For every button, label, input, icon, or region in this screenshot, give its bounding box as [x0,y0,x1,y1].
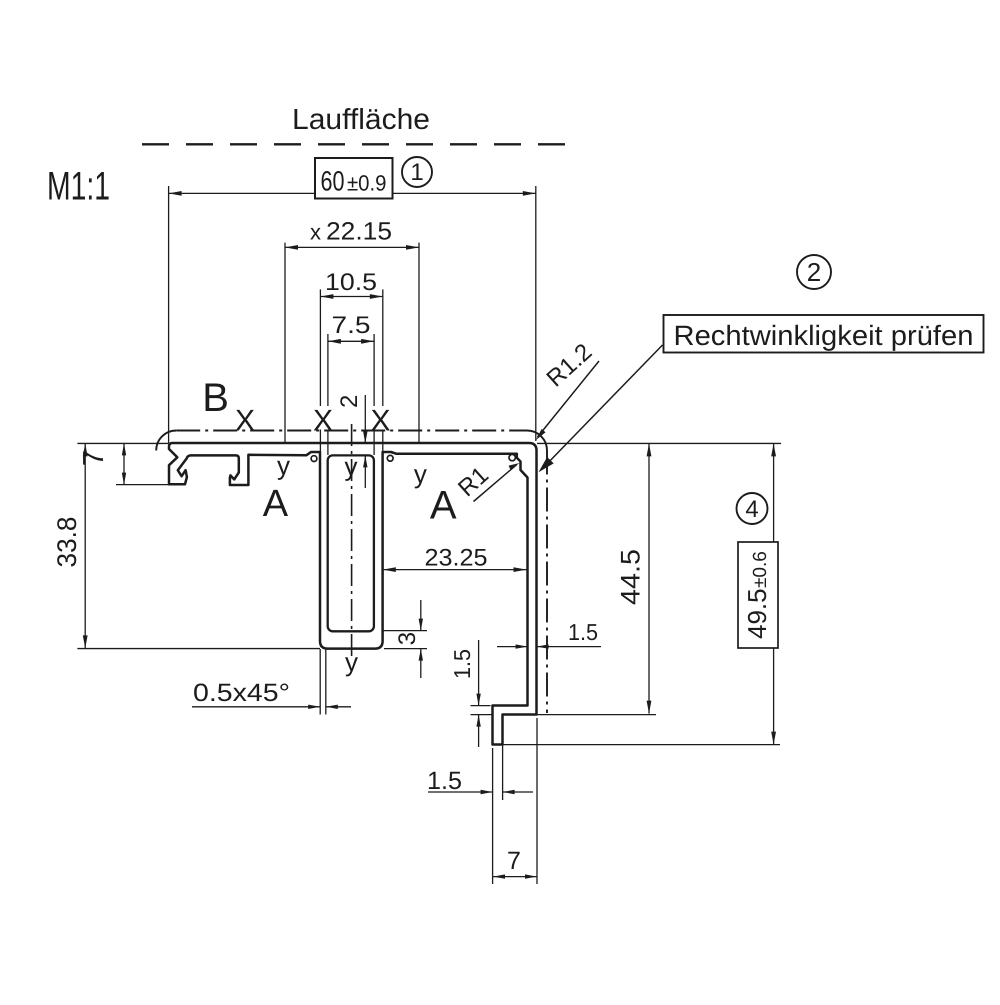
svg-text:A: A [263,483,289,525]
ext line foot bottom right [493,744,780,746]
ext line 10.5 right lower [382,430,384,453]
chain centerline screw channel [351,424,353,660]
dimension 23.25 [383,569,527,571]
dimension 49.5 [773,443,775,542]
svg-text:X: X [313,405,333,438]
box Rechtwinkligkeit pruefen [664,315,984,353]
dimension 7 bottom [493,876,537,878]
svg-text:Rechtwinkligkeit prüfen: Rechtwinkligkeit prüfen [674,320,974,351]
chain line X-X vertical [546,451,548,714]
dimension 7 left [123,443,125,484]
ext line bottom foot right face [502,718,504,800]
svg-text:1.5: 1.5 [449,649,475,679]
chain line X-X right arc [527,431,547,451]
chamfer ext line left [319,649,321,715]
svg-text:7.5: 7.5 [332,312,371,339]
ext line 60 left [168,186,170,443]
dimension 44.5 [648,443,650,713]
svg-text:1.5: 1.5 [568,619,598,645]
svg-text:2: 2 [336,395,363,408]
ext line 22.15 right [418,243,420,444]
ext line 22.15 left [284,243,286,445]
profile outline [169,443,537,745]
dimension 22.15 [285,246,419,248]
svg-text:y: y [414,459,427,489]
dimension 0.5x45 [192,706,320,708]
svg-text:44.5: 44.5 [616,549,646,605]
ext line 10.5 left lower [319,430,321,453]
balloon 4 [737,493,768,524]
svg-text:±0.9: ±0.9 [347,171,387,196]
chamfer ext line right [325,649,327,715]
dimension 3 [420,600,422,631]
dimension 10.5 [320,296,382,298]
dimension 2 arrows [364,395,366,443]
label R1.2 leader [538,361,600,437]
chain line X-X left arc [156,431,176,451]
dashed line under Lauffläche [142,143,573,145]
small circle marker right [509,454,515,460]
svg-text:0.5x45°: 0.5x45° [193,679,290,707]
svg-text:7: 7 [507,847,521,875]
svg-text:4: 4 [745,496,758,523]
ext line bottom foot left face [492,748,494,884]
ext line 3 top [376,630,427,632]
dimension 60 line [169,192,315,194]
ext line 7.5 left lower [327,430,329,456]
svg-text:y: y [345,647,358,677]
box 60±0.9 [315,158,393,199]
ext line 60 right [535,186,537,441]
ext line 7.5 left upper [327,334,329,406]
svg-text:49.5: 49.5 [742,588,772,639]
svg-text:60: 60 [321,166,345,197]
ext line 10.5 right upper [382,289,384,406]
box 49.5±0.6 [738,542,778,648]
dimension 1.5 leg [497,646,528,648]
svg-text:33.8: 33.8 [52,517,82,568]
ext line foot bottom left [116,484,169,486]
balloon 2 [797,255,831,289]
ext tick 1.5 step top [471,705,491,707]
svg-text:3: 3 [394,632,421,645]
ext line 3 bottom [384,648,427,650]
svg-text:y: y [345,452,358,482]
white break behind X3 [372,407,390,430]
ext line top surface right [537,442,781,444]
svg-text:Lauffläche: Lauffläche [292,104,430,136]
balloon 1 [402,157,432,187]
ext line top surface left [77,442,168,444]
svg-text:1: 1 [410,159,423,186]
svg-text:1.5: 1.5 [427,767,462,795]
dimension 33.8 [84,443,86,648]
leader line from Rechtwinkligkeit box [542,345,663,469]
svg-text:±0.6: ±0.6 [750,551,771,588]
ext line leg bottom right [537,714,656,716]
ext line 7.5 right lower [373,430,375,456]
svg-text:10.5: 10.5 [325,269,377,296]
small circle marker middle [387,455,393,461]
svg-text:22.15: 22.15 [326,218,392,246]
dimension 7.5 [328,340,374,342]
chain line X-X horizontal [176,430,527,432]
svg-text:23.25: 23.25 [425,545,488,572]
ext line channel bottom left [77,648,320,650]
svg-text:B: B [202,376,229,420]
small circle marker left [311,456,317,462]
ext line 10.5 left upper [319,289,321,406]
svg-text:X: X [235,405,255,438]
ext line leg outer face down [536,718,538,884]
dimension 1.5 foot [428,791,493,793]
svg-text:x: x [310,220,321,245]
svg-text:M1:1: M1:1 [47,165,110,209]
ext line 7.5 right upper [373,334,375,406]
dimension 1.5 step [478,640,480,706]
svg-text:A: A [430,484,457,528]
svg-text:y: y [277,451,290,481]
svg-text:X: X [370,405,390,438]
svg-text:2: 2 [807,257,821,287]
svg-text:7: 7 [78,450,110,466]
white break behind X2 [314,407,332,430]
label R1 leader [474,465,517,502]
ext tick 1.5 step bottom [471,714,502,716]
screw channel interior [328,455,374,631]
